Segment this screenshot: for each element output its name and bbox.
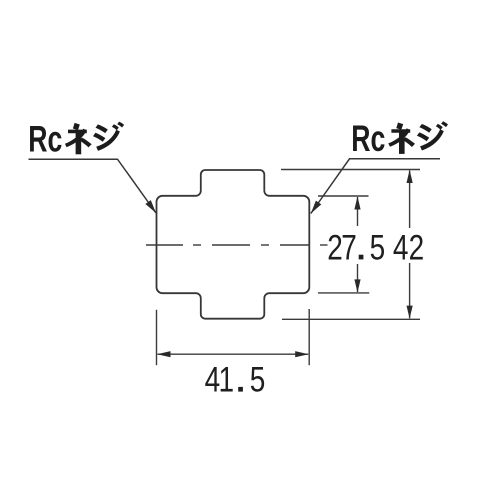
svg-text:5: 5	[370, 227, 386, 267]
dimension 41.5 arrowheads	[157, 351, 309, 357]
left label katakana JI glyph	[93, 122, 124, 151]
dimension 42 dimension line	[409, 171, 411, 319]
right label katakana NE glyph	[388, 123, 415, 154]
svg-text:Rc: Rc	[351, 118, 385, 159]
left leader arrowhead	[145, 200, 156, 213]
right leader arrowhead	[311, 201, 322, 214]
dimension 41.5 extension lines	[157, 309, 310, 365]
svg-text:7: 7	[341, 227, 357, 267]
right label Rc thread leader line	[311, 159, 440, 214]
svg-text:2: 2	[409, 227, 425, 267]
dimension 41.5 dimension line	[158, 353, 309, 355]
dimension text 41.5	[205, 359, 266, 399]
left label Rc thread leader line	[29, 159, 157, 213]
dimension text 27.5	[327, 227, 385, 267]
dimension 27.5 extension lines	[318, 196, 369, 293]
svg-text:1: 1	[219, 359, 235, 399]
dimension 42 extension lines	[281, 170, 420, 320]
svg-text:Rc: Rc	[28, 118, 62, 159]
left label katakana NE glyph	[65, 123, 92, 154]
dimension 27.5 arrowheads	[354, 196, 360, 292]
right label text Rc	[351, 118, 385, 159]
part outline (socket body cross-section)	[157, 170, 310, 319]
dimension text 42	[393, 227, 424, 267]
right label katakana JI glyph	[417, 121, 448, 150]
left label text Rc	[28, 118, 62, 159]
svg-text:4: 4	[393, 227, 409, 267]
svg-text:5: 5	[250, 359, 266, 399]
dimension 42 arrowheads	[407, 170, 413, 319]
centerline (dash-dot axis)	[146, 244, 328, 246]
dimension 27.5 dimension line	[357, 197, 359, 292]
